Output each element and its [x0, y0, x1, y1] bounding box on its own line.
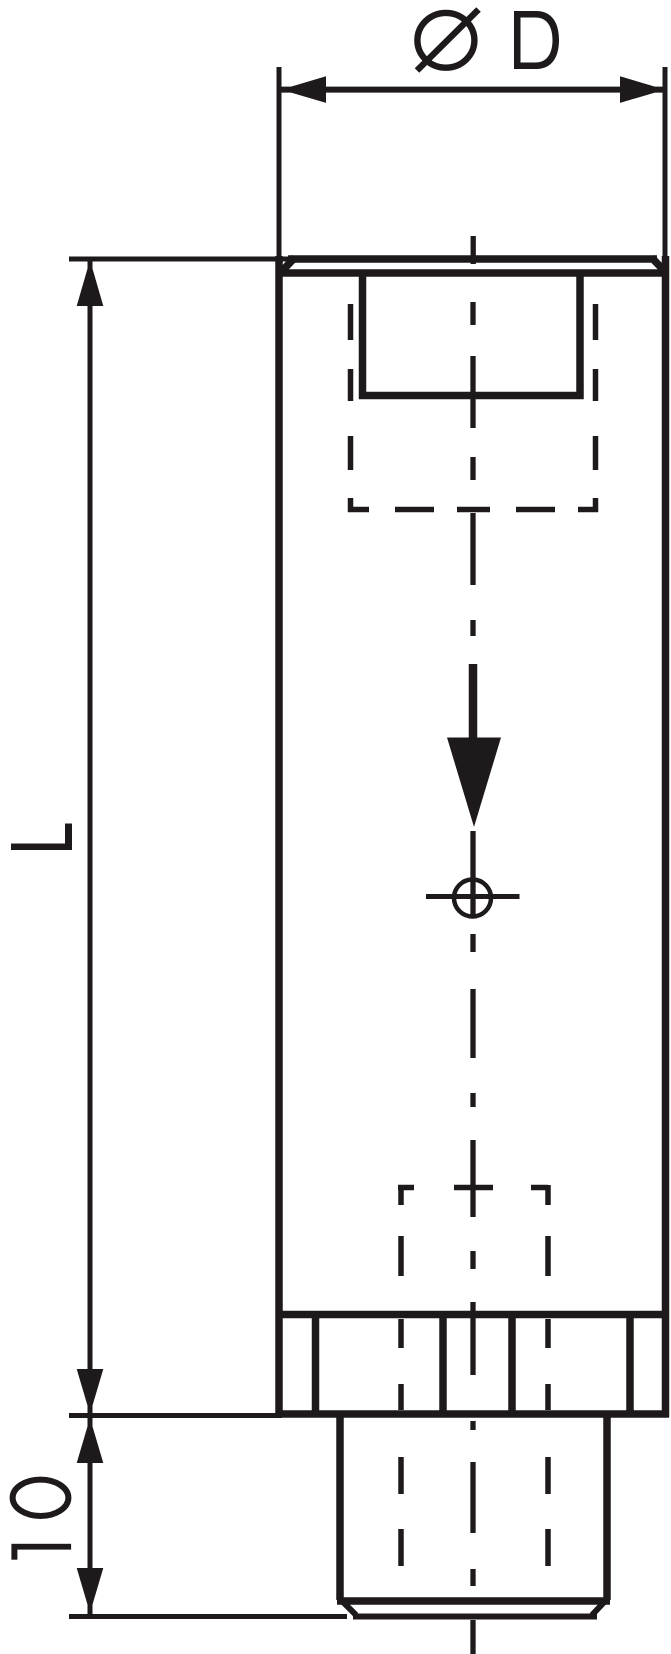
lower thread dashed left line — [398, 1185, 404, 1566]
hex top edge — [276, 1311, 670, 1319]
dimension label "Ø D": diameter symbol circle — [417, 13, 474, 68]
Ø D right extension line — [663, 67, 668, 262]
L label (rotated 90° CCW): cap stem — [11, 844, 72, 851]
shared extension line at thread shoulder — [69, 1413, 282, 1418]
10 label: digit 1 stem — [11, 1544, 71, 1550]
Ø D dimension line — [281, 87, 665, 93]
socket thread dashed right edge — [593, 304, 599, 512]
flow arrowhead — [447, 738, 501, 828]
orifice circle — [454, 880, 491, 917]
stud left bottom chamfer — [338, 1597, 356, 1615]
cap top edge — [288, 255, 657, 263]
hex flat line 2 — [439, 1318, 447, 1411]
lower thread dashed right line — [545, 1185, 551, 1566]
10 dimension line — [88, 1414, 93, 1616]
hex bottom edge — [276, 1410, 670, 1418]
Ø D left arrowhead — [281, 76, 326, 103]
hex flat line 1 — [312, 1318, 320, 1411]
body left edge — [275, 256, 283, 1417]
L bottom arrowhead — [77, 1369, 104, 1414]
stud right bottom chamfer — [592, 1597, 609, 1615]
stud chamfer bottom line — [353, 1614, 597, 1620]
L top extension line — [69, 257, 292, 262]
dimension label "Ø D": diameter symbol slash — [417, 10, 479, 71]
10 label: digit 1 flag — [11, 1549, 17, 1560]
stud right edge — [603, 1414, 611, 1599]
Ø D right arrowhead — [620, 76, 665, 103]
stud end line — [337, 1597, 610, 1605]
L top arrowhead — [77, 260, 104, 306]
cap right chamfer — [652, 258, 665, 272]
L label: foot stroke — [65, 824, 72, 851]
stud left edge — [336, 1414, 344, 1599]
10 top arrowhead — [77, 1418, 104, 1463]
dimension label "Ø D": letter D — [514, 11, 559, 69]
10 bottom arrowhead — [77, 1568, 104, 1613]
socket thread dashed left edge — [348, 304, 354, 512]
cap bottom edge — [276, 269, 670, 277]
flow arrow stem — [469, 664, 478, 740]
cap left chamfer — [281, 258, 296, 273]
lower thread dashed top edge — [398, 1185, 548, 1191]
hex flat line 3 — [508, 1318, 516, 1411]
socket counterbore rectangle — [363, 273, 581, 396]
socket thread dashed bottom edge — [348, 507, 598, 513]
body right edge — [662, 256, 670, 1417]
centerline (dash-dot) — [470, 236, 476, 1654]
10 bottom extension line — [69, 1614, 347, 1619]
L dimension line — [88, 259, 93, 1414]
10 label (rotated 90° CCW): digit 0 — [13, 1480, 69, 1516]
orifice crosshair horizontal — [426, 894, 520, 899]
Ø D left extension line — [277, 67, 282, 262]
hex flat line 4 — [626, 1318, 634, 1411]
